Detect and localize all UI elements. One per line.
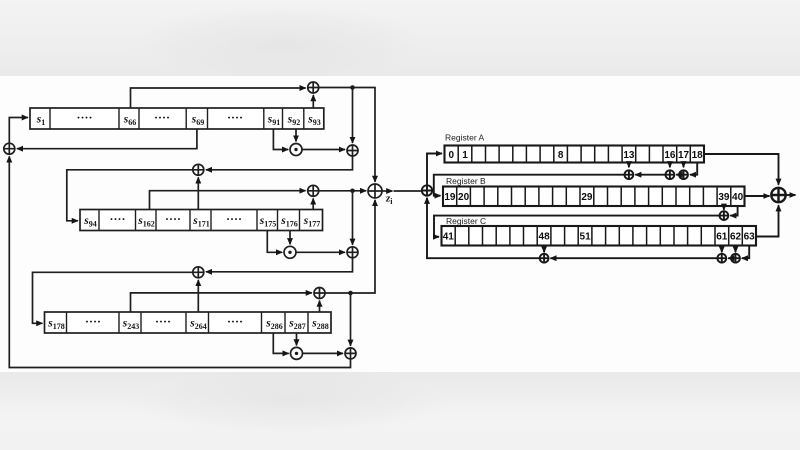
wire t3 out right then up into output xor — [325, 200, 375, 293]
wire tap 63 down into xor c2 — [742, 246, 749, 259]
node t3 branch — [348, 291, 353, 296]
and gate r1 — [290, 144, 302, 156]
wire regB feedback left down into regC input — [434, 216, 720, 237]
wire s162 tap up to xor t2 — [150, 191, 306, 210]
svg-text:61: 61 — [716, 232, 728, 243]
A51-SECTION — [422, 133, 796, 263]
bottom gray band — [0, 372, 800, 450]
wire AND r2 to xor r2b — [296, 251, 345, 253]
svg-text:····: ···· — [226, 212, 242, 226]
wire tap 40 down into xor b1 — [730, 206, 737, 216]
wire xor a3 to xor a2 — [676, 174, 679, 176]
output xor z — [368, 184, 382, 198]
wire t2 branch down into xor r2b — [352, 191, 354, 245]
svg-text:0: 0 — [449, 150, 455, 161]
xor r2in (row2 input) — [193, 164, 204, 175]
xor a3 (17+18) — [679, 170, 688, 179]
xor a51 input — [422, 185, 432, 195]
wire xor r2in out left down into s94 — [67, 170, 193, 221]
register A box — [445, 146, 705, 163]
svg-text:····: ···· — [165, 212, 181, 226]
wire t1 out right then down to output xor — [319, 88, 375, 182]
wire a51 output arrow — [786, 194, 796, 196]
wire s177 up into xor t2 — [312, 198, 314, 209]
svg-text:····: ···· — [155, 315, 171, 329]
wire s91 down to AND r1 — [273, 129, 288, 150]
xor c1 (61+) — [717, 254, 726, 263]
wire tap 61 down into xor c1 — [721, 246, 723, 253]
svg-text:Register A: Register A — [445, 133, 485, 143]
svg-text:51: 51 — [580, 232, 592, 243]
xor c2 (62+63) — [731, 254, 740, 263]
wire regA feedback left down into regB input — [434, 175, 625, 196]
xor t2 (s162+s177) — [308, 185, 319, 196]
wire xor a2 to xor a1 — [635, 174, 665, 176]
wire xor r2b down left into xor r3in — [206, 258, 353, 272]
register C box — [442, 226, 757, 246]
node t1 branch — [350, 85, 355, 90]
xor b1 (39+40) — [720, 211, 729, 220]
svg-text:····: ···· — [227, 315, 243, 329]
wire s264 up into xor r3in — [197, 280, 199, 312]
wire xor r1b down left into xor r2in — [206, 156, 353, 170]
svg-text:8: 8 — [558, 150, 564, 161]
xor r3in (row3 input) — [193, 267, 204, 278]
wire s243 tap up to xor t3 — [131, 293, 312, 312]
wire s171 up into xor r2in — [197, 177, 199, 209]
wire s69 feedback to left xor — [17, 129, 197, 149]
wire s287 down into AND r3 — [296, 333, 298, 345]
out xor a51 — [771, 188, 785, 202]
svg-text:62: 62 — [730, 232, 742, 243]
svg-text:····: ···· — [85, 315, 101, 329]
xor r2b — [347, 247, 358, 258]
svg-text:····: ···· — [154, 111, 170, 125]
xor r1b (and+t1) — [347, 145, 358, 156]
wire big feedback loop xor r3b to left xor — [9, 156, 350, 367]
register B box — [443, 187, 745, 207]
wire z to a51 input xor — [394, 190, 422, 192]
xor a2 (16+) — [666, 170, 675, 179]
wire s288 up into xor t3 — [319, 301, 321, 312]
svg-text:17: 17 — [678, 150, 690, 161]
top gray band — [0, 0, 800, 76]
wire regC output right up into out xor — [756, 205, 779, 236]
xor t3 (s243+s288) — [314, 288, 325, 299]
wire regA output right down to out xor — [704, 154, 779, 185]
wire s66 tap up to XOR t1 — [131, 88, 306, 108]
wire tap 39 down into xor b1 — [723, 206, 725, 210]
and gate r2 — [284, 246, 296, 258]
svg-text:63: 63 — [744, 232, 756, 243]
wire s176 down into AND r2 — [289, 231, 291, 245]
wire s92 down into AND r1 — [295, 129, 297, 142]
svg-text:····: ···· — [109, 212, 125, 226]
wire tap 16 down into xor a2 — [669, 163, 671, 168]
wire a51 input xor up into regA — [427, 154, 442, 186]
wire s175 down to AND r2 — [267, 231, 282, 253]
wire AND r1 to xor r1b — [302, 149, 345, 151]
xor c0 (48+) — [540, 254, 549, 263]
xor a1 (13+) — [625, 170, 634, 179]
wire t3 branch down into xor r3b — [350, 293, 352, 346]
svg-text:20: 20 — [458, 192, 470, 203]
wire tap 13 down into xor a1 — [628, 163, 630, 168]
node t2 branch — [350, 189, 355, 194]
and gate r3 — [291, 347, 303, 359]
wire z output arrow — [382, 190, 392, 192]
svg-text:····: ···· — [76, 111, 92, 125]
svg-text:13: 13 — [623, 150, 635, 161]
svg-text:Register B: Register B — [446, 176, 486, 186]
wire s286 down to AND r3 — [273, 333, 288, 353]
svg-text:16: 16 — [664, 150, 676, 161]
register row 2 (s94..s177) box — [80, 210, 323, 231]
wire AND r3 to xor r3b — [303, 352, 344, 354]
wire regB output into out xor — [745, 195, 770, 197]
svg-text:41: 41 — [443, 232, 455, 243]
wire xor r3in out left down into s178 — [33, 272, 193, 323]
xor t1 (s66+s93) — [308, 82, 319, 93]
svg-text:····: ···· — [227, 111, 243, 125]
xor left (row1 input) — [4, 143, 15, 154]
wire tap 48 down into xor c0 — [543, 246, 545, 253]
register row 1 (s1..s93) box — [30, 108, 324, 129]
wire s93 tap up into XOR t1 — [312, 95, 314, 108]
white content band — [0, 76, 800, 372]
wire xor c2 to xor c1 — [728, 257, 731, 259]
wire tap 18 down into xor a3 — [690, 163, 697, 175]
wire regC feedback left up into a51 input xor — [427, 198, 540, 259]
svg-text:40: 40 — [732, 192, 744, 203]
wire xor c1 left to xor c0 — [550, 257, 717, 259]
wire tap 62 down into xor c2 — [735, 246, 737, 253]
svg-text:48: 48 — [539, 232, 551, 243]
wire tap 17 down into xor a3 — [683, 163, 685, 168]
svg-text:Register C: Register C — [446, 216, 486, 226]
svg-text:1: 1 — [462, 150, 468, 161]
wire t1 branch down into xor r1b — [352, 88, 354, 144]
svg-text:18: 18 — [692, 150, 704, 161]
wire t2 out right into output xor — [319, 190, 367, 192]
register row 3 (s178..s288) box — [45, 312, 332, 333]
svg-text:19: 19 — [444, 192, 456, 203]
wire left xor up into s1 — [9, 118, 28, 144]
svg-text:29: 29 — [581, 192, 593, 203]
svg-text:39: 39 — [718, 192, 730, 203]
xor r3b — [345, 348, 356, 359]
